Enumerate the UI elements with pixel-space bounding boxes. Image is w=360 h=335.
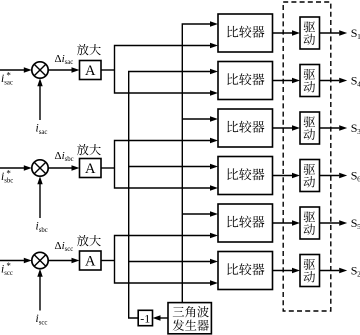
svg-text:S4: S4 — [351, 74, 360, 89]
wire: gate signal output S4 — [320, 78, 348, 83]
summing junction SJ3 (phase c) — [32, 252, 48, 268]
label 驱动 in DRV4 — [304, 164, 315, 175]
label 放大 (amplify) above A2 — [77, 144, 88, 155]
wire: phase c error bus to comparators 5 and 6 — [115, 233, 219, 286]
driver DRV5 (驱动) box — [300, 207, 320, 239]
triangle wave generator (三角波发生器) box — [168, 303, 211, 334]
label 放大 (amplify) above A3 — [77, 235, 88, 246]
wire: gate signal output S3 — [320, 125, 348, 130]
wire: error Δi_sac from SJ1 to amplifier — [48, 67, 79, 72]
wire: gate signal output S6 — [320, 173, 348, 178]
wire: gate signal output S2 — [320, 268, 348, 273]
amplifier A1 (放大) box — [80, 61, 102, 80]
label 比较器 in CMP5 — [227, 216, 238, 228]
amplifier A3 (放大) box — [80, 251, 102, 270]
wire: gate signal output S5 — [320, 220, 348, 225]
label 三角波 / 发生器 — [173, 306, 209, 331]
inverter gain block (-1) box — [138, 310, 152, 325]
wire: error Δi_sbc from SJ2 to amplifier — [48, 165, 79, 170]
label 比较器 in CMP4 — [227, 168, 238, 180]
comparator CMP2 (比较器) box — [218, 62, 273, 100]
label 驱动 in DRV2 — [304, 69, 315, 80]
amplifier A2 (放大) box — [80, 159, 102, 178]
wire: CMP4 output to driver — [273, 173, 301, 178]
wire: feedback current i_sac into SJ1 — [37, 78, 42, 120]
summing junction SJ2 (phase b) — [32, 160, 48, 176]
dashed enclosure around drive units — [283, 2, 331, 311]
wire: error Δi_scc from SJ3 to amplifier — [48, 258, 79, 263]
svg-text:S5: S5 — [351, 216, 360, 231]
svg-text:A: A — [85, 63, 96, 79]
wire: CMP1 output to driver — [273, 30, 301, 35]
svg-text:isbc: isbc — [36, 220, 48, 234]
wire: CMP5 output to driver — [273, 220, 301, 225]
comparator CMP4 (比较器) box — [218, 157, 273, 195]
wire: amplifier A1 output to bus — [101, 69, 115, 71]
wire: phase b error bus to comparators 3 and 4 — [115, 138, 219, 191]
wire: reference current input i*_sac — [0, 67, 32, 72]
svg-text:A: A — [85, 254, 96, 270]
driver DRV3 (驱动) box — [300, 112, 320, 144]
label 驱动 in DRV6 — [304, 259, 315, 270]
svg-text:Δisac: Δisac — [55, 53, 74, 66]
wire: feedback current i_scc into SJ3 — [37, 269, 42, 311]
comparator CMP1 (比较器) box — [218, 14, 273, 52]
svg-text:*: * — [6, 71, 11, 81]
wire: phase a error bus to comparators 1 and 2 — [115, 43, 219, 96]
wire: reference current input i*_scc — [0, 258, 32, 263]
label 比较器 in CMP1 — [227, 26, 238, 38]
wire: triangle carrier bus to comparators 1,3,5 — [182, 21, 218, 302]
svg-text:isac: isac — [36, 122, 48, 136]
svg-text:-1: -1 — [140, 311, 150, 325]
label 放大 (amplify) above A1 — [77, 44, 88, 55]
label 比较器 in CMP3 — [227, 121, 238, 133]
driver DRV2 (驱动) box — [300, 65, 320, 97]
summing junction SJ1 (phase a) — [32, 62, 48, 78]
wire: CMP6 output to driver — [273, 268, 301, 273]
label 驱动 in DRV3 — [304, 116, 315, 127]
driver DRV1 (驱动) box — [300, 17, 320, 49]
label 比较器 in CMP6 — [227, 263, 238, 275]
svg-text:A: A — [85, 161, 96, 177]
label 驱动 in DRV5 — [304, 211, 315, 222]
wire: amplifier A3 output to bus — [101, 260, 115, 262]
driver DRV6 (驱动) box — [300, 255, 320, 287]
driver DRV4 (驱动) box — [300, 160, 320, 192]
svg-text:S3: S3 — [351, 121, 360, 136]
comparator CMP3 (比较器) box — [218, 109, 273, 147]
svg-text:S1: S1 — [351, 26, 360, 41]
comparator CMP5 (比较器) box — [218, 204, 273, 242]
wire: reference current input i*_sbc — [0, 165, 32, 170]
wire: CMP2 output to driver — [273, 78, 301, 83]
svg-text:*: * — [6, 261, 11, 271]
svg-text:Δisbc: Δisbc — [55, 150, 74, 163]
svg-text:Δiscc: Δiscc — [55, 240, 74, 253]
wire: feedback current i_sbc into SJ2 — [37, 176, 42, 218]
comparator CMP6 (比较器) box — [218, 252, 273, 290]
wire: CMP3 output to driver — [273, 125, 301, 130]
wire: amplifier A2 output to bus — [101, 167, 115, 169]
wire: triangle generator output to -1 block — [153, 315, 169, 320]
label 驱动 in DRV1 — [304, 21, 315, 32]
wire: gate signal output S1 — [320, 30, 348, 35]
label 比较器 in CMP2 — [227, 73, 238, 85]
svg-text:iscc: iscc — [36, 313, 48, 327]
wire: inverted carrier bus (-1 output) to comparators 2,4,6 — [129, 69, 218, 318]
svg-text:S6: S6 — [351, 169, 360, 184]
svg-text:S2: S2 — [351, 264, 360, 279]
svg-text:*: * — [6, 169, 11, 179]
